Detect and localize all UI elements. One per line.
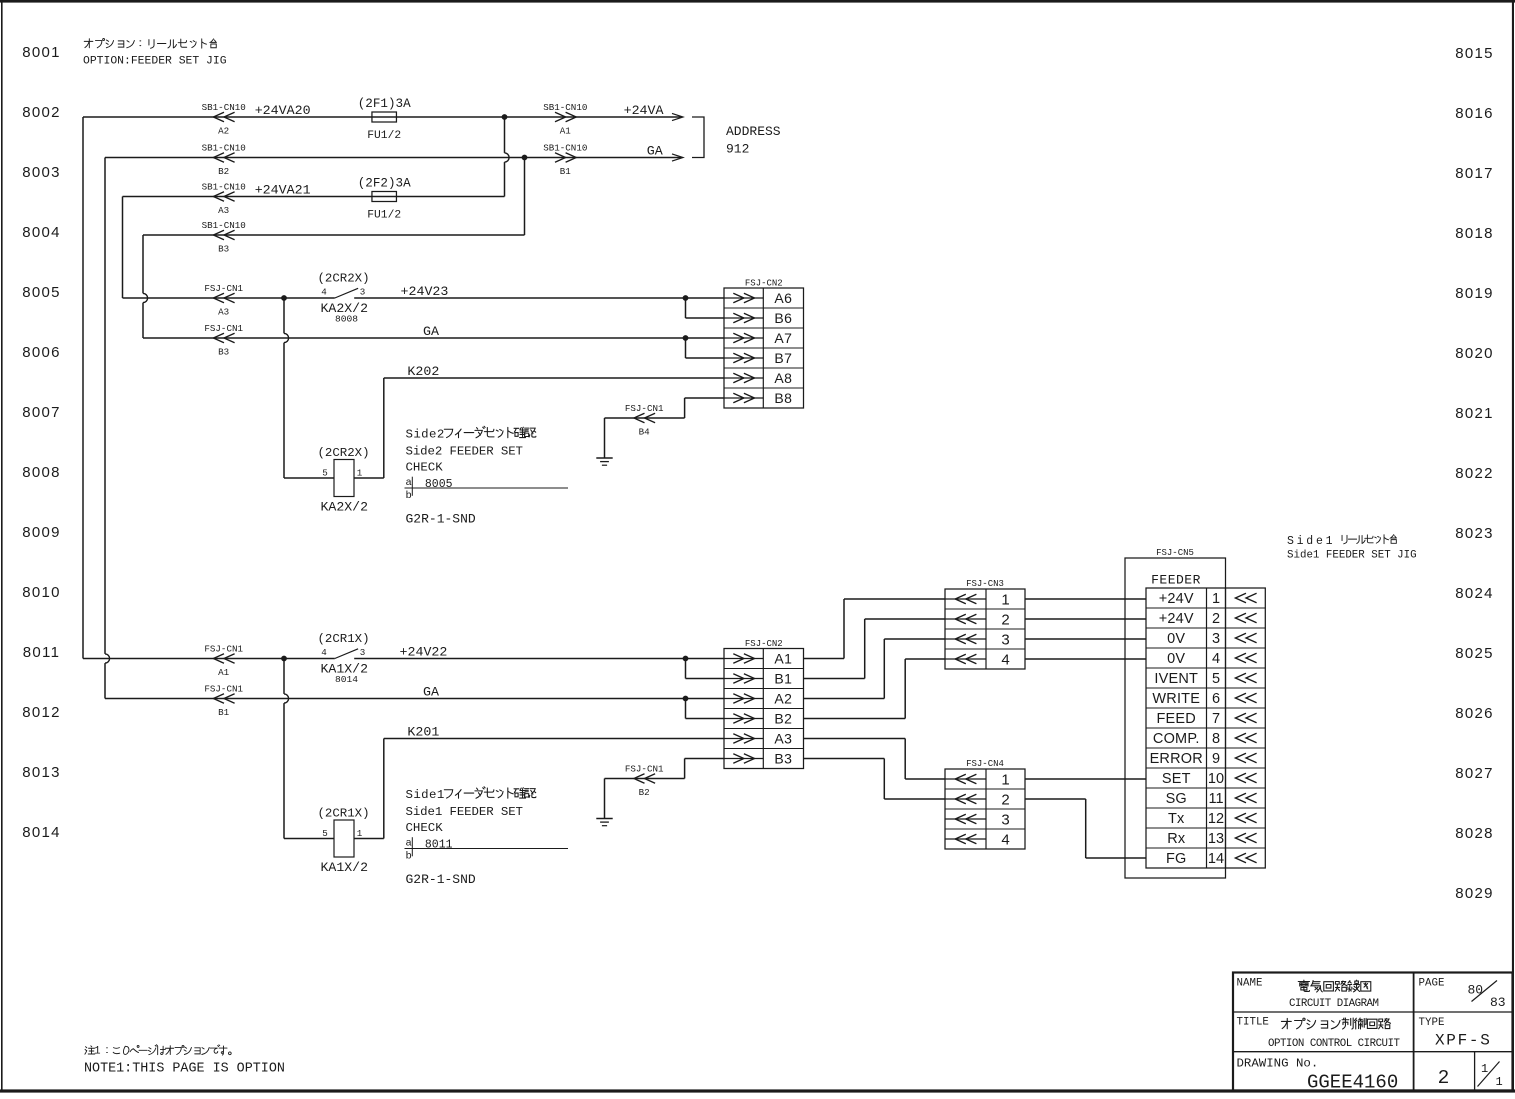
svg-text:(2F2)3A: (2F2)3A — [358, 177, 411, 191]
svg-text:CHECK: CHECK — [406, 460, 444, 474]
svg-text:7: 7 — [1212, 711, 1220, 727]
svg-text:5: 5 — [1212, 671, 1220, 687]
svg-text:4: 4 — [1001, 651, 1009, 668]
svg-text:8010: 8010 — [22, 584, 61, 601]
svg-text:9: 9 — [1212, 751, 1220, 767]
svg-text:OPTION CONTROL CIRCUIT: OPTION CONTROL CIRCUIT — [1268, 1038, 1401, 1050]
svg-text:8014: 8014 — [22, 824, 61, 841]
svg-text:a: a — [406, 477, 412, 489]
svg-text:1: 1 — [1212, 591, 1220, 607]
svg-text:4: 4 — [1212, 651, 1220, 667]
svg-text:1: 1 — [357, 828, 363, 839]
svg-text:2: 2 — [1001, 611, 1009, 628]
svg-text:1: 1 — [94, 1046, 101, 1058]
svg-text:4: 4 — [321, 287, 327, 298]
svg-text:FSJ-CN5: FSJ-CN5 — [1156, 548, 1194, 558]
svg-text:B3: B3 — [218, 244, 229, 255]
svg-text:8008: 8008 — [335, 314, 358, 325]
svg-text:FSJ-CN1: FSJ-CN1 — [204, 644, 243, 655]
svg-text:FSJ-CN1: FSJ-CN1 — [625, 403, 664, 414]
svg-text:DRAWING No.: DRAWING No. — [1237, 1057, 1319, 1071]
svg-text:8015: 8015 — [1455, 45, 1494, 62]
svg-text:8005: 8005 — [425, 478, 453, 491]
svg-text:A1: A1 — [774, 651, 792, 667]
svg-text:GGEE4160: GGEE4160 — [1307, 1072, 1398, 1094]
svg-text:B3: B3 — [774, 751, 792, 767]
svg-text:NAME: NAME — [1237, 978, 1263, 990]
svg-text:WRITE: WRITE — [1152, 691, 1200, 707]
svg-text:B3: B3 — [218, 347, 229, 358]
svg-text:SB1-CN10: SB1-CN10 — [202, 143, 246, 154]
svg-text:Side1 FEEDER SET: Side1 FEEDER SET — [406, 805, 523, 819]
svg-text:B7: B7 — [774, 350, 792, 366]
svg-text:8006: 8006 — [22, 344, 61, 361]
svg-text:8027: 8027 — [1455, 765, 1494, 782]
svg-text:+24V: +24V — [1159, 611, 1194, 627]
svg-text:2: 2 — [1001, 791, 1009, 808]
svg-text:8009: 8009 — [22, 524, 61, 541]
svg-text:B2: B2 — [774, 711, 792, 727]
svg-text:FSJ-CN2: FSJ-CN2 — [745, 639, 783, 649]
svg-text:A3: A3 — [218, 307, 229, 318]
svg-text:4: 4 — [321, 647, 327, 658]
svg-text:5: 5 — [322, 828, 328, 839]
svg-text:8021: 8021 — [1455, 405, 1494, 422]
svg-text:A1: A1 — [218, 667, 230, 678]
svg-text:COMP.: COMP. — [1153, 731, 1200, 747]
svg-text:A2: A2 — [774, 691, 792, 707]
svg-text:3: 3 — [1001, 631, 1009, 648]
svg-text:GA: GA — [647, 144, 663, 159]
svg-text:NOTE1:THIS PAGE IS OPTION: NOTE1:THIS PAGE IS OPTION — [84, 1062, 285, 1077]
svg-text:G2R-1-SND: G2R-1-SND — [406, 872, 476, 887]
svg-text:(2CR1X): (2CR1X) — [317, 632, 369, 646]
svg-text:(2CR2X): (2CR2X) — [317, 272, 369, 286]
svg-text:8007: 8007 — [22, 404, 61, 421]
svg-text:12: 12 — [1208, 811, 1224, 827]
svg-text:Side1 FEEDER SET JIG: Side1 FEEDER SET JIG — [1287, 550, 1417, 562]
svg-text:GA: GA — [423, 324, 439, 339]
svg-text:SG: SG — [1166, 791, 1187, 807]
svg-text:FEEDER: FEEDER — [1151, 573, 1201, 588]
svg-text:8024: 8024 — [1455, 585, 1494, 602]
svg-text:A2: A2 — [218, 126, 229, 137]
svg-text:1: 1 — [357, 468, 363, 479]
svg-text:GA: GA — [423, 685, 439, 700]
svg-text:SB1-CN10: SB1-CN10 — [202, 220, 246, 231]
svg-text:FSJ-CN1: FSJ-CN1 — [204, 323, 243, 334]
svg-text:PAGE: PAGE — [1419, 978, 1445, 990]
svg-text:G2R-1-SND: G2R-1-SND — [406, 511, 476, 526]
svg-text:(2F1)3A: (2F1)3A — [358, 97, 411, 111]
svg-text:Side2 FEEDER SET: Side2 FEEDER SET — [406, 444, 523, 458]
svg-text:8020: 8020 — [1455, 345, 1494, 362]
svg-text:SB1-CN10: SB1-CN10 — [543, 143, 587, 154]
svg-text:FU1/2: FU1/2 — [367, 130, 401, 142]
svg-text:FG: FG — [1166, 851, 1187, 867]
svg-text:SB1-CN10: SB1-CN10 — [202, 102, 246, 113]
svg-text:A1: A1 — [560, 126, 572, 137]
svg-text:FEED: FEED — [1157, 711, 1196, 727]
svg-text:8001: 8001 — [22, 44, 61, 61]
svg-text:K201: K201 — [407, 725, 439, 740]
svg-text:80: 80 — [1468, 983, 1484, 998]
svg-text:8008: 8008 — [22, 464, 61, 481]
svg-text:+24VA21: +24VA21 — [255, 183, 311, 198]
svg-text:ADDRESS: ADDRESS — [726, 124, 781, 139]
svg-text:OPTION:FEEDER SET JIG: OPTION:FEEDER SET JIG — [83, 56, 227, 68]
svg-text:3: 3 — [360, 647, 366, 658]
svg-text:3: 3 — [360, 287, 366, 298]
svg-text:FSJ-CN2: FSJ-CN2 — [745, 279, 783, 289]
svg-text:4: 4 — [1001, 831, 1009, 848]
svg-text:83: 83 — [1490, 995, 1506, 1010]
svg-text:FSJ-CN3: FSJ-CN3 — [966, 579, 1004, 589]
svg-text:CHECK: CHECK — [406, 821, 444, 835]
svg-text:+24V: +24V — [1159, 591, 1194, 607]
svg-text:13: 13 — [1208, 831, 1224, 847]
svg-text:KA1X/2: KA1X/2 — [321, 860, 368, 875]
svg-text:1: 1 — [1481, 1062, 1488, 1076]
svg-text:8023: 8023 — [1455, 525, 1494, 542]
svg-text:0V: 0V — [1167, 631, 1185, 647]
svg-text:FSJ-CN1: FSJ-CN1 — [204, 684, 243, 695]
svg-text:0V: 0V — [1167, 651, 1185, 667]
svg-text:+24VA20: +24VA20 — [255, 103, 311, 118]
svg-text:SB1-CN10: SB1-CN10 — [202, 182, 246, 193]
svg-text:KA2X/2: KA2X/2 — [321, 500, 368, 515]
svg-text:+24V23: +24V23 — [401, 284, 449, 299]
svg-text:+24VA: +24VA — [624, 103, 664, 118]
svg-text:B6: B6 — [774, 310, 792, 326]
svg-text:b: b — [406, 851, 412, 863]
svg-text:3: 3 — [1001, 811, 1009, 828]
svg-text:8026: 8026 — [1455, 705, 1494, 722]
svg-text:A3: A3 — [774, 731, 792, 747]
svg-text:Tx: Tx — [1168, 811, 1185, 827]
svg-text:8: 8 — [1212, 731, 1220, 747]
svg-text:2: 2 — [1212, 611, 1220, 627]
svg-text:2: 2 — [1438, 1067, 1450, 1089]
svg-text:Side2: Side2 — [406, 428, 445, 442]
svg-text:8014: 8014 — [335, 674, 358, 685]
svg-text:8013: 8013 — [22, 764, 61, 781]
svg-text:B8: B8 — [774, 390, 792, 406]
svg-text:TYPE: TYPE — [1419, 1017, 1445, 1029]
svg-text:A8: A8 — [774, 370, 792, 386]
svg-text:8002: 8002 — [22, 104, 61, 121]
svg-text:B2: B2 — [218, 166, 229, 177]
svg-text:CIRCUIT DIAGRAM: CIRCUIT DIAGRAM — [1289, 998, 1379, 1010]
svg-text:B1: B1 — [560, 166, 572, 177]
svg-text:8029: 8029 — [1455, 885, 1494, 902]
svg-text:8018: 8018 — [1455, 225, 1494, 242]
svg-text:B1: B1 — [218, 707, 230, 718]
svg-text:A6: A6 — [774, 290, 792, 306]
svg-text:Side1: Side1 — [1287, 535, 1335, 548]
svg-text:IVENT: IVENT — [1154, 671, 1198, 687]
svg-text:8019: 8019 — [1455, 285, 1494, 302]
svg-text:8011: 8011 — [23, 644, 60, 661]
svg-text:1: 1 — [1001, 771, 1009, 788]
svg-text:XPF-S: XPF-S — [1435, 1032, 1492, 1050]
svg-text:Side1: Side1 — [406, 788, 445, 802]
svg-text:10: 10 — [1208, 771, 1224, 787]
svg-text:8005: 8005 — [22, 284, 61, 301]
svg-text:K202: K202 — [407, 364, 439, 379]
svg-text:B2: B2 — [639, 787, 650, 798]
svg-text:8004: 8004 — [22, 224, 61, 241]
svg-text:B1: B1 — [774, 671, 792, 687]
svg-text:FSJ-CN1: FSJ-CN1 — [625, 764, 664, 775]
svg-text:SB1-CN10: SB1-CN10 — [543, 102, 587, 113]
svg-text:8003: 8003 — [22, 164, 61, 181]
svg-text:FSJ-CN4: FSJ-CN4 — [966, 759, 1004, 769]
svg-text:b: b — [406, 490, 412, 502]
svg-text:FU1/2: FU1/2 — [367, 210, 401, 222]
svg-text:14: 14 — [1208, 851, 1224, 867]
svg-text:1: 1 — [1496, 1075, 1503, 1089]
svg-text:912: 912 — [726, 142, 749, 157]
svg-text:8025: 8025 — [1455, 645, 1494, 662]
svg-text:1: 1 — [1001, 591, 1009, 608]
svg-text:8016: 8016 — [1455, 105, 1494, 122]
svg-text:5: 5 — [322, 468, 328, 479]
svg-text:B4: B4 — [639, 427, 651, 438]
svg-text:a: a — [406, 838, 412, 850]
svg-text:3: 3 — [1212, 631, 1220, 647]
svg-text:(2CR2X): (2CR2X) — [317, 446, 369, 460]
svg-text:8022: 8022 — [1455, 465, 1494, 482]
svg-text:11: 11 — [1208, 791, 1223, 807]
svg-text:6: 6 — [1212, 691, 1220, 707]
svg-text:8028: 8028 — [1455, 825, 1494, 842]
svg-text:TITLE: TITLE — [1237, 1017, 1269, 1029]
svg-text:A7: A7 — [774, 330, 792, 346]
svg-text:FSJ-CN1: FSJ-CN1 — [204, 283, 243, 294]
svg-text:(2CR1X): (2CR1X) — [317, 807, 369, 821]
svg-text:ERROR: ERROR — [1150, 751, 1203, 767]
svg-text:8012: 8012 — [22, 704, 61, 721]
svg-text:+24V22: +24V22 — [400, 645, 448, 660]
svg-text:Rx: Rx — [1167, 831, 1186, 847]
svg-text:8017: 8017 — [1455, 165, 1494, 182]
svg-text:A3: A3 — [218, 205, 229, 216]
svg-text:SET: SET — [1162, 771, 1191, 787]
svg-text:8011: 8011 — [425, 839, 453, 852]
